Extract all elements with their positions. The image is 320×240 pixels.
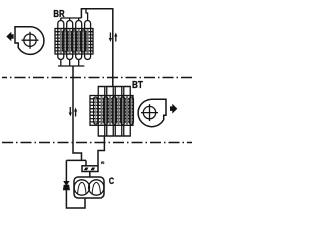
svg-text:C: C: [109, 176, 115, 186]
svg-text:vo: vo: [101, 160, 105, 165]
svg-text:BT: BT: [132, 80, 143, 91]
